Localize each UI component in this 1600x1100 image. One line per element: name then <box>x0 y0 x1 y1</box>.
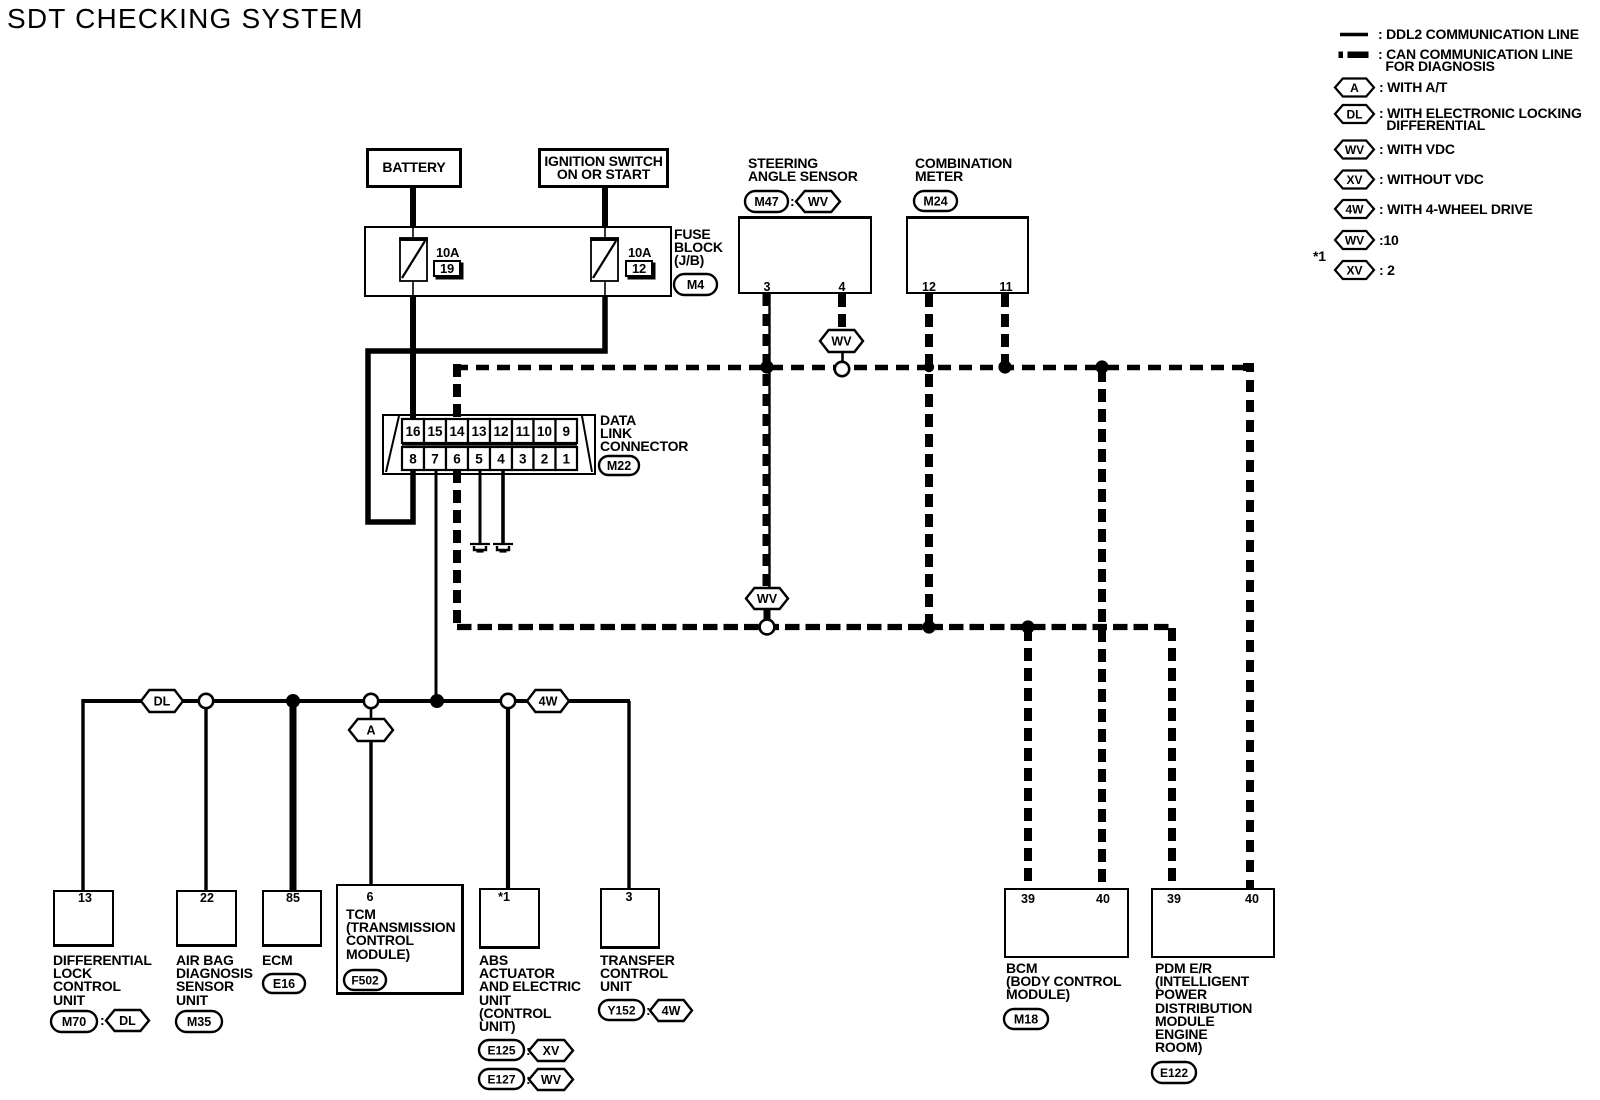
connector ref Y152 (transfer unit) <box>599 1000 644 1020</box>
legend with VDC label <box>1379 143 1455 155</box>
wire bus circle to hexagon A <box>370 707 373 720</box>
option connector XV (ABS E125) <box>529 1040 573 1061</box>
legend connector WV (*1 =10) <box>1335 231 1374 249</box>
CAN line combination meter pin 12 down <box>925 294 933 625</box>
connector ref E122 (PDM E/R) <box>1152 1062 1196 1083</box>
ECM box <box>262 890 322 947</box>
option connector WV (ABS E127) <box>529 1069 573 1090</box>
fuse number box 12 <box>625 260 653 277</box>
svg-text:9: 9 <box>562 424 570 439</box>
junction node upper CAN at meter pin 12 <box>924 362 934 372</box>
svg-text:A: A <box>366 723 375 737</box>
wire through fuse 19 (thin top) <box>412 227 414 240</box>
CAN line steering sensor pin 3 down (dash) <box>763 294 771 588</box>
DLC pin 14 cell <box>446 419 468 443</box>
DLC pin 12 cell <box>490 419 512 443</box>
connector circle on bus (air bag branch) <box>199 694 213 708</box>
transfer pin 3 <box>626 890 633 904</box>
connector ref M70 (diff lock unit) <box>51 1011 97 1032</box>
DLC row separator <box>402 444 577 446</box>
air bag pin 22 <box>200 891 214 905</box>
steering angle sensor label <box>748 157 858 183</box>
wire hexagon A to TCM pin 6 <box>369 740 372 885</box>
transfer control unit label <box>600 954 675 994</box>
DLC pin 7 cell <box>424 447 446 470</box>
wire bus to ABS actuator pin *1 <box>506 707 510 889</box>
connector ref M18 (BCM) <box>1004 1009 1048 1029</box>
colon after M70 <box>100 1013 104 1027</box>
BCM box <box>1004 888 1129 958</box>
DLC pin 4 cell <box>490 447 512 470</box>
svg-text:3: 3 <box>519 451 527 466</box>
TCM label <box>346 908 455 961</box>
connector circle on bus (TCM branch) <box>364 694 378 708</box>
svg-text:6: 6 <box>453 451 461 466</box>
wire fuse 12 to DLC pin 8 (L-shaped run) <box>368 295 605 522</box>
svg-text:XV: XV <box>1346 173 1362 187</box>
CAN line DLC pin 6 down to lower horizontal <box>453 470 461 629</box>
option connector WV (pin 4 branch) <box>820 330 863 352</box>
svg-text:E125: E125 <box>487 1043 515 1057</box>
connector ref M47 (steering angle sensor) <box>745 191 788 212</box>
svg-text:M18: M18 <box>1014 1012 1038 1026</box>
wire WV hexagon to open circle (pin 4 branch) <box>841 351 844 363</box>
legend with 4-wheel drive label <box>1379 203 1533 215</box>
wire bus to differential lock control unit pin 13 <box>81 699 84 891</box>
legend connector XV (*1 =2) <box>1335 261 1374 279</box>
DLC pin 16 cell <box>402 419 424 443</box>
CAN line combination meter pin 11 down <box>1001 294 1009 363</box>
connector ref E16 (ECM) <box>263 974 305 993</box>
svg-text:16: 16 <box>405 424 421 439</box>
DLC pin 13 cell <box>468 419 490 443</box>
svg-text:Y152: Y152 <box>607 1003 635 1017</box>
CAN line node to BCM pin 39 <box>1024 628 1032 888</box>
ABS pin *1 <box>498 890 510 904</box>
TCM pin 6 <box>367 890 374 904</box>
svg-text:A: A <box>1350 81 1359 95</box>
svg-text:7: 7 <box>431 451 439 466</box>
combination meter box <box>906 216 1029 294</box>
DLC pin 15 cell <box>424 419 446 443</box>
svg-text:DL: DL <box>119 1014 136 1028</box>
wire through fuse 12 (thin bottom) <box>604 279 606 297</box>
svg-text:DL: DL <box>154 694 171 708</box>
wire battery to fuse block <box>410 186 416 228</box>
steering pin 3 <box>764 280 771 294</box>
svg-text:WV: WV <box>1345 233 1364 247</box>
legend connector A <box>1335 79 1374 97</box>
legend connector 4W <box>1335 200 1374 218</box>
connector ref M35 (air bag unit) <box>176 1011 222 1032</box>
svg-text:13: 13 <box>471 424 487 439</box>
meter pin 11 <box>999 280 1012 294</box>
data link connector label <box>600 414 688 454</box>
svg-text:12: 12 <box>493 424 508 439</box>
svg-text:10: 10 <box>537 424 552 439</box>
CAN line steering sensor pin 4 to WV hexagon <box>838 294 846 333</box>
junction node lower CAN at BCM pin 39 branch <box>1021 620 1034 633</box>
fuse number box 19 <box>433 260 461 277</box>
steering angle sensor box <box>738 216 872 294</box>
legend connector XV <box>1335 171 1374 189</box>
junction node on bus at DLC pin 7 wire <box>430 694 444 708</box>
svg-text:E122: E122 <box>1160 1066 1188 1080</box>
wire DLC pin 5 to ground <box>479 469 482 544</box>
ECM label <box>262 954 293 967</box>
connector ref E127 (ABS) <box>479 1069 524 1089</box>
ECM pin 85 <box>286 891 300 905</box>
connector ref F502 (TCM) <box>344 970 386 990</box>
legend connector WV <box>1335 141 1374 159</box>
junction node upper CAN at meter pin 11 <box>998 360 1011 373</box>
svg-text:1: 1 <box>562 451 570 466</box>
svg-text:5: 5 <box>475 451 483 466</box>
svg-text:WV: WV <box>831 334 852 348</box>
CAN line node to BCM pin 40 <box>1098 369 1106 888</box>
legend DDL2 label <box>1378 28 1579 40</box>
ABS actuator box <box>479 888 540 949</box>
svg-text:4W: 4W <box>539 694 558 708</box>
svg-text:15: 15 <box>427 424 443 439</box>
legend CAN line symbol <box>1339 52 1369 59</box>
svg-text:XV: XV <box>543 1044 560 1058</box>
svg-text:M47: M47 <box>754 195 778 209</box>
svg-text:DL: DL <box>1347 107 1363 121</box>
fuse 12 body <box>590 238 619 281</box>
wire bus to air bag diagnosis sensor unit pin 22 <box>204 707 207 891</box>
TCM box <box>336 884 464 995</box>
legend with A/T label <box>1379 81 1447 93</box>
legend star1 note <box>1313 250 1326 262</box>
battery box <box>366 148 462 188</box>
connector circle upper CAN (steering pin 4) <box>835 362 849 376</box>
connector circle on bus (ABS branch) <box>501 694 515 708</box>
connector circle lower CAN (steering pin 3) <box>760 620 775 635</box>
wire DLC pin 7 down to module bus <box>435 469 438 701</box>
svg-text:WV: WV <box>1345 143 1364 157</box>
fuse rating 10A (fuse 19) <box>436 246 459 259</box>
diff lock pin 13 <box>78 891 92 905</box>
module bus wire (horizontal) <box>83 699 630 703</box>
fuse block label <box>674 228 723 268</box>
connector ref M4 (fuse block) <box>674 274 717 295</box>
wire through fuse 19 (thin bottom) <box>412 279 414 297</box>
steering pin 4 <box>839 280 846 294</box>
svg-text:WV: WV <box>757 592 778 606</box>
fuse rating 10A (fuse 12) <box>628 246 651 259</box>
CAN line upper horizontal <box>455 365 1245 371</box>
wire WV hexagon to open circle (pin 3 branch) <box>764 608 771 622</box>
colon after M47 <box>790 194 794 208</box>
BCM label <box>1006 962 1121 1002</box>
PDM E/R box <box>1151 888 1275 958</box>
svg-text:4W: 4W <box>1346 202 1365 216</box>
option connector DL on bus <box>141 690 183 712</box>
BCM pin 39 <box>1021 892 1035 906</box>
DLC pin 3 cell <box>512 447 534 470</box>
option connector WV (pin 3 branch) <box>746 588 788 609</box>
CAN line steering sensor pin 3 down (thin core) <box>768 294 770 588</box>
colon after Y152 <box>646 1003 650 1017</box>
wire through fuse 12 (thin top) <box>604 227 606 240</box>
svg-text:14: 14 <box>449 424 465 439</box>
svg-text:M70: M70 <box>62 1015 86 1029</box>
legend without VDC label <box>1379 173 1484 185</box>
connector ref M24 (combination meter) <box>914 191 957 211</box>
connector ref M22 (DLC) <box>599 456 639 475</box>
svg-text:8: 8 <box>409 451 417 466</box>
junction node upper CAN at steering pin 3 <box>760 360 773 373</box>
svg-text:M22: M22 <box>607 459 631 473</box>
transfer control unit box <box>600 888 660 949</box>
differential lock control unit label <box>53 954 152 1007</box>
meter pin 12 <box>922 280 936 294</box>
junction node on bus at ECM branch <box>286 694 300 708</box>
legend WV pin 10 label <box>1379 234 1399 246</box>
CAN line upper-left corner down to DLC pin 14 <box>453 364 461 419</box>
PDM pin 40 <box>1245 892 1259 906</box>
DLC pin 6 cell <box>446 447 468 470</box>
junction node upper CAN at BCM pin 40 branch <box>1095 360 1108 373</box>
junction node lower CAN at meter pin 12 <box>922 620 935 633</box>
svg-text:WV: WV <box>808 195 829 209</box>
legend CAN label <box>1378 49 1573 73</box>
colon after E125 <box>526 1043 530 1057</box>
DLC pin 11 cell <box>512 419 534 443</box>
svg-text:11: 11 <box>516 424 531 439</box>
option connector 4W on bus <box>527 690 569 712</box>
svg-text:4W: 4W <box>662 1004 681 1018</box>
BCM pin 40 <box>1096 892 1110 906</box>
svg-text:XV: XV <box>1346 263 1362 277</box>
air bag diagnosis sensor unit box <box>176 890 237 947</box>
wire fuse 19 to DLC pin 16 <box>410 295 416 420</box>
ground (DLC pin 5) <box>470 544 490 552</box>
DLC pin 2 cell <box>534 447 556 470</box>
svg-text:M35: M35 <box>187 1015 211 1029</box>
option connector 4W (transfer Y152) <box>650 1000 692 1021</box>
svg-text:E127: E127 <box>487 1072 515 1086</box>
CAN line upper-right corner down to PDM pin 40 <box>1243 367 1250 888</box>
svg-text:E16: E16 <box>273 977 295 991</box>
DLC pin 10 cell <box>534 419 556 443</box>
ground (DLC pin 4) <box>493 544 513 552</box>
CAN line lower-right corner down to PDM pin 39 <box>1168 628 1176 888</box>
fuse 19 body <box>399 238 428 281</box>
DLC pin 5 cell <box>468 447 490 470</box>
colon after E127 <box>526 1072 530 1086</box>
legend connector DL <box>1335 105 1374 123</box>
wire bus to ECM pin 85 (thick) <box>290 701 297 891</box>
DLC pin 9 cell <box>556 419 578 443</box>
air bag diagnosis sensor unit label <box>176 954 253 1007</box>
wire ignition switch to fuse block <box>602 186 608 228</box>
ignition switch box <box>538 148 669 188</box>
DLC pin 1 cell <box>556 447 578 470</box>
ABS actuator label <box>479 954 581 1033</box>
svg-text:2: 2 <box>541 451 549 466</box>
option connector DL (diff lock label) <box>106 1010 149 1031</box>
differential lock control unit box <box>53 890 114 947</box>
legend with electronic locking differential label <box>1379 107 1582 132</box>
option connector WV (steering angle sensor) <box>796 191 840 212</box>
DLC pin 8 cell <box>402 447 424 470</box>
svg-text:M24: M24 <box>923 194 947 208</box>
data link connector outline M22 <box>383 415 595 474</box>
title: SDT CHECKING SYSTEM <box>7 4 364 34</box>
legend DDL2 line symbol <box>1340 33 1368 37</box>
wire bus to transfer control unit pin 3 <box>627 701 630 889</box>
legend XV pin 2 label <box>1379 264 1395 276</box>
svg-text:M4: M4 <box>687 278 704 292</box>
CAN line lower horizontal <box>457 624 1172 630</box>
svg-text:4: 4 <box>497 451 505 466</box>
PDM pin 39 <box>1167 892 1181 906</box>
connector ref E125 (ABS) <box>479 1040 524 1060</box>
fuse block box M4 <box>364 226 672 297</box>
option connector A (TCM branch) <box>349 719 393 741</box>
combination meter label <box>915 157 1012 183</box>
svg-text:WV: WV <box>541 1073 562 1087</box>
wire DLC pin 4 to ground <box>501 469 505 544</box>
PDM E/R label <box>1155 962 1252 1054</box>
